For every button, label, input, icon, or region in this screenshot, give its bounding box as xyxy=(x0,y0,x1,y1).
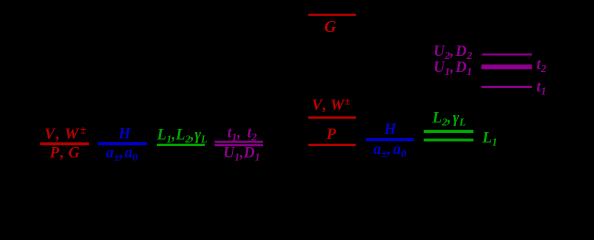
svg-text:H: H xyxy=(117,126,131,143)
level line U1,D1 / t2 (right purple thick) xyxy=(481,65,532,70)
level line L2,gammaL (right green thick) xyxy=(424,130,474,133)
svg-text:G: G xyxy=(324,17,336,36)
fraction bar red left xyxy=(40,142,89,145)
svg-text:H: H xyxy=(383,121,397,138)
level line P (right red) xyxy=(308,144,356,146)
svg-text:U1,D1: U1,D1 xyxy=(223,145,260,164)
svg-text:U1,D1: U1,D1 xyxy=(433,59,472,78)
fraction bar blue left xyxy=(98,142,147,145)
double bar purple upper xyxy=(215,141,264,143)
level line L1 (right green thin) xyxy=(424,139,474,142)
level line t1 (right purple thin) xyxy=(481,86,532,88)
level line U2,D2 (right purple thin) xyxy=(482,54,532,56)
level line H (right blue) xyxy=(366,138,414,141)
fraction bar green left xyxy=(157,144,205,146)
level line V,W± (right red) xyxy=(308,116,356,118)
svg-text:P: P xyxy=(326,126,336,143)
level line G (red, top) xyxy=(308,14,356,16)
double bar purple lower xyxy=(215,144,264,146)
svg-text:L1,L2,γL: L1,L2,γL xyxy=(156,126,207,145)
